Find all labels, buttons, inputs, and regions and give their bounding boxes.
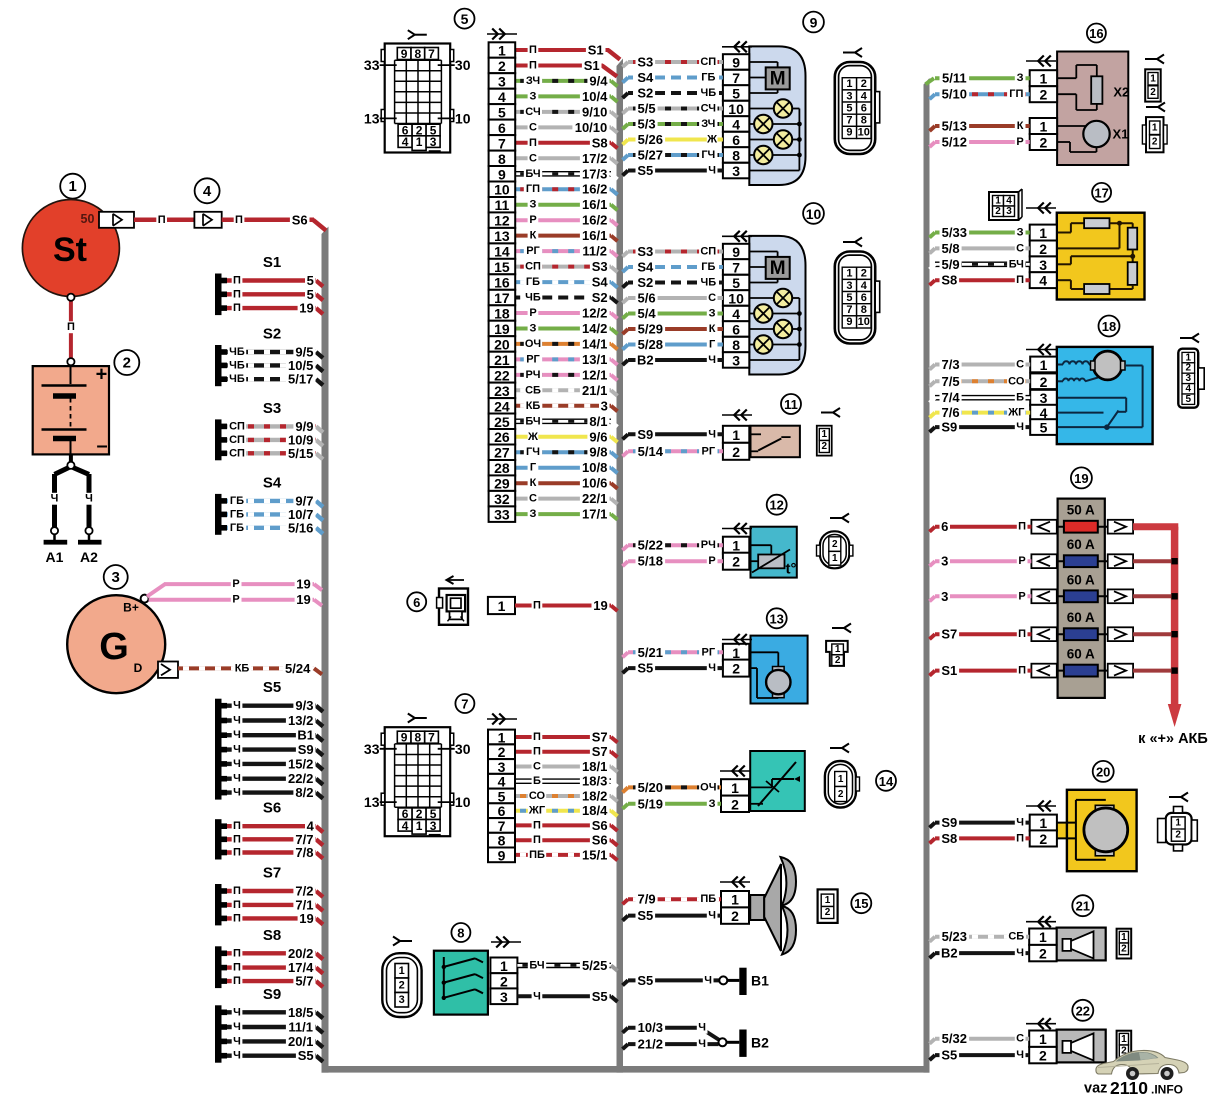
svg-text:ГЧ: ГЧ (526, 446, 540, 458)
svg-text:26: 26 (494, 429, 510, 445)
svg-text:П: П (1016, 274, 1024, 286)
svg-text:16/1: 16/1 (582, 228, 607, 243)
svg-text:18/2: 18/2 (582, 789, 607, 804)
svg-text:СП: СП (229, 420, 245, 432)
svg-text:9/3: 9/3 (295, 698, 313, 713)
svg-text:9/10: 9/10 (582, 104, 607, 119)
svg-text:2: 2 (1039, 241, 1047, 257)
svg-text:РГ: РГ (526, 245, 540, 257)
svg-text:1: 1 (416, 819, 423, 833)
svg-text:10: 10 (455, 794, 471, 810)
svg-text:Ч: Ч (51, 493, 59, 505)
svg-text:4: 4 (402, 135, 409, 149)
svg-text:ОЧ: ОЧ (525, 338, 541, 350)
svg-text:5/5: 5/5 (638, 101, 656, 116)
svg-text:7/9: 7/9 (638, 892, 656, 907)
svg-text:21: 21 (494, 352, 510, 368)
svg-text:28: 28 (494, 460, 510, 476)
svg-text:1: 1 (1040, 119, 1048, 135)
svg-text:19: 19 (299, 301, 313, 316)
svg-text:5/7: 5/7 (295, 974, 313, 989)
svg-text:П: П (233, 899, 241, 911)
svg-text:9: 9 (401, 731, 408, 745)
svg-text:5: 5 (307, 287, 314, 302)
svg-text:2: 2 (1040, 87, 1048, 103)
svg-text:П: П (529, 44, 537, 56)
svg-text:S6: S6 (292, 212, 308, 227)
svg-text:8: 8 (732, 337, 740, 353)
svg-text:S2: S2 (263, 326, 281, 343)
svg-text:Ч: Ч (233, 1035, 241, 1047)
svg-text:12/1: 12/1 (582, 367, 607, 382)
svg-text:СП: СП (229, 447, 245, 459)
svg-text:S5: S5 (637, 973, 653, 988)
svg-text:П: П (233, 275, 241, 287)
svg-text:2: 2 (732, 444, 740, 460)
svg-text:X1: X1 (1113, 127, 1129, 142)
svg-text:S9: S9 (941, 420, 957, 435)
svg-text:16/2: 16/2 (582, 213, 607, 228)
svg-text:5/28: 5/28 (638, 337, 663, 352)
svg-text:Ч: Ч (233, 758, 241, 770)
svg-text:ГБ: ГБ (230, 508, 244, 520)
svg-text:6: 6 (732, 132, 740, 148)
svg-text:20/2: 20/2 (288, 946, 313, 961)
svg-text:60 A: 60 A (1067, 610, 1095, 625)
svg-text:Ч: Ч (708, 428, 716, 440)
svg-text:2: 2 (500, 974, 508, 990)
svg-text:13: 13 (494, 228, 510, 244)
svg-text:Ч: Ч (1016, 421, 1024, 433)
svg-text:3: 3 (1006, 206, 1012, 217)
svg-text:S4: S4 (592, 275, 609, 290)
svg-text:РГ: РГ (526, 353, 540, 365)
svg-text:П: П (233, 847, 241, 859)
svg-text:Ч: Ч (233, 744, 241, 756)
svg-text:Ч: Ч (533, 990, 541, 1002)
svg-text:3: 3 (498, 73, 506, 89)
svg-text:3: 3 (941, 589, 948, 604)
svg-text:S6: S6 (592, 818, 608, 833)
svg-text:5/14: 5/14 (638, 444, 664, 459)
svg-text:9: 9 (732, 244, 740, 260)
svg-text:3: 3 (430, 819, 437, 833)
svg-text:11: 11 (494, 197, 509, 213)
svg-text:15/1: 15/1 (582, 847, 607, 862)
svg-text:22: 22 (1076, 1003, 1090, 1018)
svg-text:19: 19 (1074, 471, 1088, 486)
svg-text:Ч: Ч (233, 729, 241, 741)
svg-text:17/2: 17/2 (582, 151, 607, 166)
svg-text:1: 1 (1040, 71, 1048, 87)
svg-text:11/1: 11/1 (288, 1020, 313, 1035)
svg-text:15: 15 (494, 259, 510, 275)
svg-text:10/6: 10/6 (582, 476, 607, 491)
svg-text:ПБ: ПБ (529, 849, 545, 861)
svg-text:S9: S9 (263, 986, 281, 1003)
svg-text:10: 10 (728, 101, 744, 117)
svg-text:18/4: 18/4 (582, 803, 608, 818)
svg-text:S2: S2 (592, 290, 608, 305)
svg-text:ГБ: ГБ (701, 72, 715, 84)
svg-text:2: 2 (995, 206, 1001, 217)
svg-text:27: 27 (494, 445, 510, 461)
svg-text:5/13: 5/13 (942, 119, 967, 134)
svg-text:С: С (529, 121, 537, 133)
svg-text:10/8: 10/8 (582, 460, 607, 475)
svg-text:Ч: Ч (708, 354, 716, 366)
svg-text:П: П (158, 214, 166, 226)
svg-text:З: З (709, 798, 716, 810)
svg-text:5/17: 5/17 (288, 372, 313, 387)
svg-text:6: 6 (941, 519, 948, 534)
svg-text:3: 3 (498, 759, 506, 775)
svg-text:9: 9 (732, 55, 740, 71)
svg-text:З: З (1017, 72, 1024, 84)
svg-text:1: 1 (416, 135, 423, 149)
svg-text:ЧБ: ЧБ (229, 346, 245, 358)
svg-text:1: 1 (846, 78, 852, 90)
svg-text:П: П (233, 288, 241, 300)
svg-text:5: 5 (846, 292, 852, 304)
svg-text:8: 8 (732, 148, 740, 164)
svg-text:8: 8 (861, 304, 867, 316)
svg-text:ЧБ: ЧБ (229, 373, 245, 385)
svg-text:5: 5 (498, 789, 506, 805)
svg-text:1: 1 (846, 268, 852, 280)
svg-text:7: 7 (428, 47, 435, 61)
svg-text:22: 22 (494, 367, 510, 383)
svg-text:П: П (533, 731, 541, 743)
svg-text:К: К (530, 230, 537, 242)
svg-text:П: П (529, 137, 537, 149)
svg-text:8: 8 (457, 926, 464, 941)
svg-text:5/18: 5/18 (638, 554, 663, 569)
svg-text:10: 10 (455, 110, 471, 126)
svg-text:30: 30 (455, 57, 471, 73)
svg-text:1: 1 (1175, 818, 1181, 829)
svg-text:СП: СП (525, 261, 541, 273)
svg-text:1: 1 (498, 598, 506, 614)
svg-text:2: 2 (838, 789, 844, 800)
svg-text:ГП: ГП (526, 183, 540, 195)
svg-text:10: 10 (858, 127, 870, 139)
svg-text:2: 2 (732, 554, 740, 570)
svg-text:21: 21 (1076, 899, 1090, 914)
svg-text:22/1: 22/1 (582, 491, 607, 506)
svg-text:10: 10 (858, 316, 870, 328)
svg-text:2: 2 (1039, 1048, 1047, 1064)
svg-text:3: 3 (846, 90, 852, 102)
svg-text:1: 1 (1150, 74, 1156, 85)
svg-text:5: 5 (307, 273, 314, 288)
svg-text:19: 19 (299, 911, 313, 926)
svg-text:С: С (1016, 359, 1024, 371)
svg-text:10/5: 10/5 (288, 358, 313, 373)
svg-text:20: 20 (1096, 764, 1110, 779)
svg-text:9: 9 (810, 15, 818, 31)
svg-text:Б: Б (533, 775, 541, 787)
svg-text:1: 1 (731, 780, 739, 796)
svg-text:13/2: 13/2 (288, 713, 313, 728)
svg-text:S3: S3 (592, 259, 608, 274)
svg-text:П: П (67, 321, 75, 333)
svg-text:3: 3 (399, 994, 405, 1006)
svg-text:4: 4 (1186, 384, 1192, 395)
svg-text:16: 16 (494, 275, 510, 291)
svg-text:13: 13 (364, 794, 380, 810)
svg-text:5/26: 5/26 (638, 132, 663, 147)
svg-text:П: П (233, 302, 241, 314)
svg-text:1: 1 (69, 178, 77, 195)
svg-text:.INFO: .INFO (1151, 1082, 1183, 1096)
svg-text:20/1: 20/1 (288, 1034, 313, 1049)
svg-text:60 A: 60 A (1067, 647, 1095, 662)
svg-text:2: 2 (1040, 374, 1048, 390)
svg-text:18/3: 18/3 (582, 774, 607, 789)
svg-text:32: 32 (494, 491, 510, 507)
svg-text:Ч: Ч (708, 165, 716, 177)
svg-text:3: 3 (1039, 257, 1047, 273)
svg-text:14: 14 (879, 774, 894, 789)
svg-text:S7: S7 (592, 744, 608, 759)
svg-text:П: П (233, 885, 241, 897)
svg-text:5/8: 5/8 (942, 241, 960, 256)
svg-text:9: 9 (846, 127, 852, 139)
svg-text:S6: S6 (592, 833, 608, 848)
svg-text:Ч: Ч (233, 1006, 241, 1018)
svg-text:60 A: 60 A (1067, 537, 1095, 552)
svg-text:33: 33 (364, 741, 380, 757)
svg-text:3: 3 (732, 353, 740, 369)
svg-text:9/4: 9/4 (589, 73, 608, 88)
svg-text:СО: СО (529, 790, 546, 802)
svg-text:60 A: 60 A (1067, 572, 1095, 587)
svg-text:7/6: 7/6 (942, 405, 960, 420)
svg-text:S5: S5 (637, 908, 653, 923)
svg-text:1: 1 (1152, 123, 1158, 134)
svg-text:M: M (770, 258, 786, 279)
svg-text:З: З (709, 308, 716, 320)
svg-text:B+: B+ (123, 601, 139, 615)
svg-text:3: 3 (430, 135, 437, 149)
svg-text:50: 50 (81, 212, 95, 226)
svg-text:7: 7 (732, 70, 740, 86)
svg-text:2: 2 (1121, 944, 1127, 955)
svg-text:7: 7 (732, 260, 740, 276)
svg-text:ЧБ: ЧБ (700, 277, 716, 289)
svg-text:2: 2 (835, 655, 841, 666)
svg-text:Р: Р (232, 594, 239, 606)
svg-text:5/27: 5/27 (638, 148, 663, 163)
svg-text:П: П (235, 214, 243, 226)
svg-text:16/2: 16/2 (582, 182, 607, 197)
svg-text:2: 2 (822, 441, 828, 452)
svg-text:С: С (533, 761, 541, 773)
svg-text:15/2: 15/2 (288, 756, 313, 771)
svg-text:5/9: 5/9 (942, 257, 960, 272)
svg-text:9: 9 (401, 47, 408, 61)
svg-text:S5: S5 (592, 989, 608, 1004)
svg-text:С: С (708, 292, 716, 304)
svg-text:П: П (233, 912, 241, 924)
svg-text:БЧ: БЧ (1009, 258, 1024, 270)
svg-text:t°: t° (786, 561, 797, 578)
svg-text:4: 4 (861, 90, 868, 102)
svg-text:25: 25 (494, 414, 510, 430)
svg-text:ЧБ: ЧБ (700, 87, 716, 99)
svg-text:5/25: 5/25 (582, 958, 607, 973)
svg-text:50 A: 50 A (1067, 503, 1095, 518)
svg-text:11: 11 (784, 397, 798, 412)
svg-text:S1: S1 (263, 254, 281, 271)
svg-text:5/10: 5/10 (942, 87, 967, 102)
svg-text:7: 7 (846, 304, 852, 316)
svg-text:Ч: Ч (233, 1021, 241, 1033)
svg-text:Ч: Ч (233, 715, 241, 727)
svg-text:КБ: КБ (235, 662, 250, 674)
svg-text:6: 6 (861, 292, 867, 304)
svg-text:5/6: 5/6 (638, 291, 656, 306)
svg-text:24: 24 (494, 398, 510, 414)
svg-text:S3: S3 (637, 244, 653, 259)
svg-text:П: П (233, 947, 241, 959)
svg-text:S5: S5 (263, 679, 281, 696)
svg-text:ГБ: ГБ (526, 276, 540, 288)
svg-text:16/1: 16/1 (582, 197, 607, 212)
svg-text:1: 1 (1040, 357, 1048, 373)
svg-text:Р: Р (708, 555, 715, 567)
svg-text:П: П (233, 962, 241, 974)
svg-text:3: 3 (500, 989, 508, 1005)
svg-text:Р: Р (1018, 555, 1025, 567)
svg-text:Ж: Ж (527, 431, 538, 443)
svg-text:РГ: РГ (702, 646, 716, 658)
svg-text:4: 4 (498, 89, 506, 105)
svg-text:5/4: 5/4 (638, 306, 657, 321)
svg-text:Р: Р (1018, 590, 1025, 602)
svg-text:Р: Р (529, 214, 536, 226)
svg-text:D: D (134, 661, 143, 675)
svg-text:2: 2 (123, 355, 131, 372)
svg-text:С: С (529, 493, 537, 505)
svg-text:2: 2 (825, 907, 831, 918)
svg-text:1: 1 (1039, 929, 1047, 945)
svg-text:18/5: 18/5 (288, 1005, 313, 1020)
svg-text:12: 12 (494, 213, 510, 229)
svg-text:З: З (530, 90, 537, 102)
svg-text:22/2: 22/2 (288, 771, 313, 786)
svg-text:СБ: СБ (525, 384, 541, 396)
svg-text:ГЧ: ГЧ (701, 149, 715, 161)
svg-text:2: 2 (731, 796, 739, 812)
svg-text:В2: В2 (941, 946, 958, 961)
svg-text:П: П (533, 819, 541, 831)
svg-text:S8: S8 (941, 273, 957, 288)
svg-text:К: К (1017, 120, 1024, 132)
svg-text:7: 7 (846, 115, 852, 127)
svg-text:14/1: 14/1 (582, 336, 607, 351)
svg-text:П: П (1018, 665, 1026, 677)
svg-text:14: 14 (494, 244, 510, 260)
svg-text:5: 5 (732, 86, 740, 102)
svg-text:Г: Г (530, 462, 537, 474)
svg-text:5/15: 5/15 (288, 446, 313, 461)
svg-text:ОЧ: ОЧ (700, 781, 716, 793)
svg-text:G: G (99, 626, 129, 668)
svg-text:2: 2 (1175, 830, 1181, 841)
svg-text:1: 1 (835, 644, 841, 655)
svg-text:12: 12 (769, 498, 783, 513)
svg-text:16: 16 (1089, 26, 1103, 41)
svg-text:19: 19 (296, 577, 310, 592)
svg-text:7/8: 7/8 (295, 845, 313, 860)
svg-text:2: 2 (498, 744, 506, 760)
svg-text:П: П (233, 975, 241, 987)
svg-text:1: 1 (1039, 815, 1047, 831)
svg-text:5/3: 5/3 (638, 117, 656, 132)
svg-text:7/4: 7/4 (942, 390, 961, 405)
svg-text:5: 5 (461, 11, 469, 27)
svg-text:+: + (96, 364, 108, 386)
svg-text:5/22: 5/22 (638, 538, 663, 553)
svg-text:10/10: 10/10 (575, 120, 608, 135)
svg-text:1: 1 (822, 429, 828, 440)
svg-text:СБ: СБ (1008, 931, 1024, 943)
svg-text:S6: S6 (263, 800, 281, 817)
svg-text:13: 13 (364, 110, 380, 126)
svg-text:5: 5 (1186, 394, 1192, 405)
svg-text:К: К (709, 323, 716, 335)
svg-text:10: 10 (494, 182, 510, 198)
svg-text:Ч: Ч (698, 1022, 706, 1034)
svg-text:1: 1 (500, 958, 508, 974)
svg-text:Ч: Ч (708, 662, 716, 674)
svg-text:15: 15 (854, 896, 868, 911)
svg-text:Ч: Ч (708, 910, 716, 922)
svg-text:1: 1 (1039, 1031, 1047, 1047)
svg-text:10/3: 10/3 (638, 1020, 663, 1035)
svg-text:9: 9 (498, 847, 506, 863)
svg-text:СП: СП (229, 434, 245, 446)
svg-text:5/11: 5/11 (942, 71, 967, 86)
svg-text:Б: Б (1016, 392, 1024, 404)
svg-text:П: П (233, 820, 241, 832)
svg-text:5: 5 (732, 275, 740, 291)
svg-text:С: С (529, 152, 537, 164)
svg-text:7/2: 7/2 (295, 884, 313, 899)
svg-text:Ч: Ч (233, 773, 241, 785)
svg-text:П: П (1018, 628, 1026, 640)
svg-text:17/3: 17/3 (582, 166, 607, 181)
svg-text:S2: S2 (637, 275, 653, 290)
svg-text:5/23: 5/23 (942, 929, 967, 944)
svg-text:В2: В2 (637, 353, 654, 368)
svg-text:8: 8 (498, 151, 506, 167)
svg-text:5/24: 5/24 (285, 661, 311, 676)
svg-text:ЗЧ: ЗЧ (526, 75, 540, 87)
svg-text:M: M (770, 68, 786, 89)
svg-text:К: К (530, 477, 537, 489)
svg-text:1: 1 (832, 553, 838, 564)
svg-text:Ч: Ч (1016, 947, 1024, 959)
svg-text:8/2: 8/2 (295, 785, 313, 800)
svg-text:29: 29 (494, 476, 510, 492)
svg-text:Р: Р (232, 578, 239, 590)
svg-text:3: 3 (846, 280, 852, 292)
svg-text:3: 3 (601, 398, 608, 413)
svg-text:2: 2 (731, 908, 739, 924)
